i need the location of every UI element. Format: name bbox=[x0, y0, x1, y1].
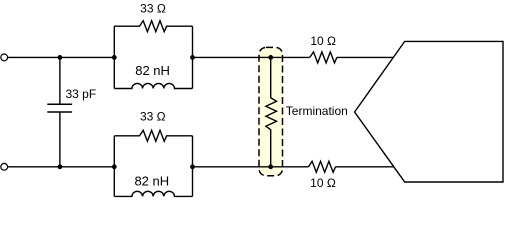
resistor R2 33 ohm (top branch of bottom network) bbox=[114, 130, 192, 141]
wire: bottom RL network right edge bbox=[192, 136, 194, 197]
inductor L2 82 nH (bottom branch of bottom network) bbox=[114, 191, 192, 196]
node D (bottom capacitor junction) bbox=[58, 164, 63, 169]
op-amp U1 (amplifier input polygon) bbox=[355, 41, 503, 182]
svg-text:10 Ω: 10 Ω bbox=[310, 34, 336, 48]
node C (top RL network right) bbox=[190, 55, 195, 60]
wire top row: node A to top RL network bbox=[60, 56, 114, 58]
node E (bottom RL network left) bbox=[112, 164, 117, 169]
node F (bottom RL network right) bbox=[190, 164, 195, 169]
termination highlight box bbox=[259, 47, 283, 175]
node T1 (termination top) bbox=[268, 55, 273, 60]
node A (top capacitor junction) bbox=[58, 55, 63, 60]
resistor R4 10 ohm (bottom) bbox=[308, 161, 335, 172]
svg-text:82 nH: 82 nH bbox=[135, 63, 170, 78]
svg-text:10 Ω: 10 Ω bbox=[310, 176, 336, 190]
wire bottom row: node D to bottom RL network bbox=[60, 166, 114, 168]
wire bottom row: J2 to node D bbox=[8, 166, 60, 168]
inductor L1 82 nH (bottom branch) bbox=[114, 83, 192, 88]
terminal J2 (bottom input) bbox=[1, 163, 8, 170]
wire bottom row: R4 to amplifier bbox=[335, 166, 394, 168]
node T2 (termination bottom) bbox=[268, 164, 273, 169]
wire top row: node C to resistor R3 bbox=[193, 56, 310, 58]
wire: top RL network right edge bbox=[192, 26, 194, 88]
capacitor C1 bbox=[47, 57, 72, 166]
node B (top RL network left) bbox=[112, 55, 117, 60]
wire top row: R3 to amplifier bbox=[337, 56, 394, 58]
svg-text:33 Ω: 33 Ω bbox=[140, 109, 166, 123]
wire: bottom RL network left edge bbox=[113, 136, 115, 197]
termination resistor RT bbox=[266, 57, 277, 166]
wire bottom row: node F to resistor R4 bbox=[193, 166, 309, 168]
svg-text:33 Ω: 33 Ω bbox=[140, 2, 166, 16]
svg-text:Termination: Termination bbox=[286, 104, 348, 118]
terminal J1 (top input) bbox=[1, 54, 8, 61]
svg-text:33 pF: 33 pF bbox=[66, 87, 97, 101]
wire top row: J1 to node A bbox=[8, 56, 60, 58]
svg-text:82 nH: 82 nH bbox=[134, 173, 169, 188]
resistor R1 33 ohm (top branch) bbox=[114, 21, 192, 32]
resistor R3 10 ohm (top) bbox=[310, 52, 337, 63]
wire: top RL network left edge bbox=[113, 26, 115, 88]
